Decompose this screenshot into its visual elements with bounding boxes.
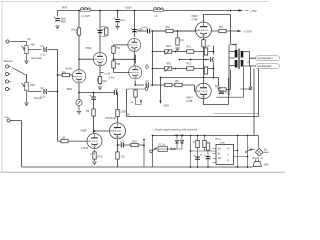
wire feedback loop — [127, 69, 259, 117]
bridge rectifier B1 — [255, 148, 268, 156]
svg-text:R11: R11 — [187, 46, 192, 49]
svg-text:1. Power supply shared by both: 1. Power supply shared by both channels — [153, 128, 198, 131]
resistor R20 — [196, 136, 199, 168]
pot input gain — [22, 45, 29, 53]
svg-text:10K: 10K — [175, 80, 180, 83]
svg-text:GT/B: GT/B — [187, 100, 193, 103]
resistor R18 T4 grid — [165, 83, 182, 86]
capacitor C5 — [44, 47, 47, 52]
resistor R8 — [131, 143, 138, 146]
wire T3 cathode — [203, 38, 205, 40]
svg-text:620: 620 — [103, 80, 108, 83]
svg-text:6H30: 6H30 — [86, 47, 93, 50]
fuse F1 — [158, 147, 177, 152]
svg-text:GT/B: GT/B — [192, 19, 198, 22]
svg-text:0.47u: 0.47u — [109, 76, 116, 79]
resistor R25 plate load T1 — [76, 28, 81, 35]
feedback network — [127, 88, 148, 105]
mains plug P1 — [253, 159, 269, 166]
junction dots driver — [113, 30, 215, 86]
svg-text:B-: B- — [218, 153, 221, 155]
label B voltage — [252, 158, 264, 160]
terminal J2 — [150, 150, 153, 153]
wire TC grid — [133, 51, 135, 66]
resistor R23 — [204, 48, 207, 55]
coupling capacitor C13 — [148, 29, 151, 34]
wire pot out — [28, 49, 41, 51]
wire T6 cathode — [94, 150, 96, 161]
resistor R10 — [112, 61, 115, 68]
trimmer VR2 — [165, 67, 172, 72]
svg-text:AD: AD — [218, 157, 222, 160]
svg-text:50K: 50K — [31, 84, 36, 87]
switch S1 mains — [245, 149, 255, 153]
svg-text:R16: R16 — [215, 85, 220, 88]
resistor R9 — [112, 46, 115, 53]
svg-text:240V: 240V — [62, 7, 68, 10]
svg-text:VR1: VR1 — [166, 45, 171, 48]
svg-text:CD: CD — [27, 38, 31, 41]
resistor R6 T6 cathode — [92, 152, 96, 165]
ground — [24, 103, 28, 106]
wire secondary to outputs — [250, 52, 256, 67]
resistor R15 leak — [175, 30, 179, 50]
svg-text:AC: AC — [264, 149, 268, 152]
svg-text:500R: 500R — [220, 142, 226, 144]
svg-text:0.1u: 0.1u — [120, 19, 125, 22]
svg-text:VR2: VR2 — [166, 63, 171, 66]
svg-text:750: 750 — [116, 63, 121, 66]
resistor R11 — [187, 50, 194, 53]
wire T4 plate loop — [204, 47, 231, 90]
svg-text:4.7V: 4.7V — [90, 153, 95, 156]
wire plate resistor row — [212, 30, 238, 32]
resistor R21 — [203, 136, 206, 152]
ground — [115, 27, 119, 30]
svg-text:1M: 1M — [62, 71, 65, 74]
op TC triode — [129, 66, 142, 79]
resistor R24 — [204, 67, 207, 74]
svg-text:R14: R14 — [132, 141, 137, 144]
wire UL tap vertical — [228, 45, 230, 96]
wire T5 cathode resistor to rail — [117, 145, 119, 167]
svg-text:6N6P: 6N6P — [81, 130, 88, 133]
terminal loudspeaker + — [256, 56, 280, 61]
capacitor C6 — [44, 89, 47, 94]
choke L2 — [154, 8, 164, 12]
svg-text:Selector: Selector — [4, 60, 13, 63]
capacitor C3 on x98 — [96, 27, 108, 37]
frame top line — [1, 1, 269, 3]
wire rail drop x135 — [134, 11, 136, 38]
op T3 triode — [196, 22, 212, 38]
wire bias arrow drop — [161, 78, 204, 102]
arrow +75V — [239, 9, 249, 11]
svg-text:R: R — [193, 141, 195, 144]
junction dots mid — [57, 74, 119, 146]
wire T1 cathode follower out — [79, 83, 118, 99]
frame left line — [1, 2, 3, 173]
wire trim row 1 — [153, 51, 214, 53]
wire coupling cap to T5 — [117, 93, 119, 123]
selector wiper — [12, 68, 27, 83]
wire T1 plate to T2 grid — [79, 11, 93, 70]
svg-text:0.1u: 0.1u — [41, 54, 46, 57]
wire T4 cathode — [204, 78, 229, 105]
svg-text:Input gain: Input gain — [31, 57, 43, 60]
resistor R19 T4 plate — [219, 88, 226, 91]
svg-text:6922: 6922 — [67, 88, 73, 91]
svg-text:C: C — [200, 154, 202, 157]
op T4 triode — [196, 83, 212, 99]
wire TC cathode to T4 row — [135, 80, 196, 91]
ground — [55, 26, 59, 29]
svg-text:Loudspeaker+: Loudspeaker+ — [257, 56, 274, 60]
wire psu top rail — [153, 136, 259, 148]
wire output stage box — [214, 73, 259, 114]
ground — [77, 112, 81, 115]
svg-text:R12: R12 — [187, 63, 192, 66]
svg-text:1M: 1M — [62, 137, 65, 140]
wire T5 cathode row — [118, 140, 145, 145]
wire T3 plate to rail loop — [204, 15, 231, 45]
wire psu right vertical — [253, 69, 255, 136]
arrow +175V — [238, 30, 242, 32]
svg-text:OPT: OPT — [233, 44, 239, 47]
resistor R17 plate — [219, 29, 226, 32]
diode D1 — [175, 136, 178, 150]
arrow bias — [159, 77, 161, 104]
op T2 triode — [93, 52, 106, 65]
connector pair — [171, 148, 176, 150]
wire pot2 out — [27, 75, 42, 103]
svg-text:1K: 1K — [207, 45, 210, 48]
diode D2 — [177, 136, 184, 150]
svg-text:G: G — [227, 160, 229, 162]
resistor R16 T3 cathode — [202, 40, 205, 79]
svg-text:1.5mA: 1.5mA — [81, 147, 89, 150]
wire HT top rail — [58, 10, 243, 12]
selector jacks — [5, 65, 11, 91]
junction dots rail — [78, 10, 231, 60]
svg-text:Loudspeaker-: Loudspeaker- — [257, 64, 273, 68]
op T5 power triode — [110, 123, 126, 139]
svg-text:GND: GND — [4, 117, 9, 119]
svg-text:20K: 20K — [71, 29, 76, 32]
wire psu bottom rail — [152, 136, 154, 168]
switch S2 — [152, 148, 157, 151]
chassis ground — [249, 87, 252, 90]
wire ground bus bottom — [11, 121, 253, 168]
wire secondary down — [250, 66, 252, 87]
capacitor C2 — [114, 18, 120, 27]
wire ground link x143 — [143, 139, 145, 167]
svg-text:1W: 1W — [126, 114, 130, 117]
page background — [0, 0, 285, 177]
capacitor C1 rail left — [54, 17, 60, 22]
regulator module U1 — [213, 142, 248, 164]
resistor R4 T6 plate load — [92, 109, 95, 116]
wire TB cathode to TC plate — [135, 55, 137, 64]
wire TB grid — [114, 45, 135, 73]
svg-text:L1 10H: L1 10H — [82, 15, 90, 18]
svg-text:96.4V: 96.4V — [66, 68, 73, 71]
wire cathode feedback — [217, 67, 251, 97]
wire T3 grid row — [138, 30, 196, 32]
wire x213 vertical — [213, 46, 215, 79]
capacitor C4 on x135 — [131, 28, 137, 33]
svg-text:220K: 220K — [219, 92, 225, 95]
pot volume — [22, 82, 29, 90]
jack input top — [6, 40, 27, 45]
test point TP1 — [146, 64, 149, 69]
resistor R12 — [187, 67, 194, 70]
svg-text:50K: 50K — [31, 44, 36, 47]
note text — [153, 128, 198, 131]
svg-text:0.1u: 0.1u — [41, 96, 46, 99]
resistor R14 grid stopper — [152, 29, 197, 32]
capacitor C10 — [121, 143, 124, 148]
wire T1 grid — [58, 74, 73, 76]
op T1 triode — [72, 70, 85, 83]
resistor R2 T2 cathode — [97, 76, 102, 89]
wire input bus vertical x57 — [48, 50, 61, 142]
wire T2 cathode — [100, 66, 104, 86]
svg-text:+75V: +75V — [250, 9, 257, 13]
svg-text:V-: V- — [227, 154, 229, 156]
capacitor C14 — [217, 88, 228, 94]
capacitor C9 T6 chain — [90, 95, 96, 100]
svg-text:+1.4V: +1.4V — [104, 73, 111, 76]
svg-text:230V: 230V — [264, 165, 270, 167]
svg-text:F1 2A: F1 2A — [159, 144, 166, 147]
svg-text:C13: C13 — [217, 88, 222, 90]
capacitor C8 coupling — [114, 90, 117, 95]
wire mid row — [179, 59, 210, 61]
resistor R1 grid T1 — [62, 73, 69, 76]
wire rail left drop — [57, 11, 59, 17]
svg-text:750: 750 — [219, 26, 224, 29]
wire psu right links — [237, 136, 249, 168]
jack line out — [4, 117, 13, 122]
svg-text:+160V: +160V — [125, 7, 133, 10]
label AC — [264, 149, 268, 152]
current source Q1 — [76, 99, 82, 105]
wire rail drop x98 — [99, 11, 101, 53]
svg-text:47K: 47K — [166, 26, 171, 29]
wire T6 plate load chain — [93, 93, 95, 134]
svg-text:47u: 47u — [101, 29, 106, 32]
svg-text:-150V: -150V — [163, 105, 170, 108]
svg-text:120: 120 — [121, 156, 126, 159]
wire x190 vertical — [191, 136, 217, 168]
svg-text:750: 750 — [116, 47, 121, 50]
capacitor C11 mid — [211, 57, 214, 62]
wire T6 plate to T5 grid — [94, 130, 109, 132]
capacitor C17 tap — [146, 83, 149, 88]
svg-text:PS-1: PS-1 — [216, 138, 222, 141]
svg-text:R12: R12 — [98, 156, 103, 159]
svg-text:1M: 1M — [180, 39, 183, 42]
junction dots psu — [152, 135, 249, 168]
op T6 triode — [87, 133, 102, 148]
wire current source to gnd — [78, 106, 80, 111]
transformer OPT — [229, 45, 250, 70]
wire driver row mid — [152, 31, 154, 85]
svg-text:+B 12V ~C: +B 12V ~C — [252, 158, 264, 160]
resistor R22 — [204, 143, 210, 167]
op TB triode — [128, 38, 141, 51]
resistor R3 — [116, 109, 119, 116]
svg-text:+175V: +175V — [244, 30, 252, 34]
wire rail drop x117 — [117, 11, 119, 19]
terminal loudspeaker - — [256, 64, 280, 69]
frame bottom line — [1, 171, 286, 173]
wire pot gnd — [26, 54, 28, 61]
resistor R5 T6 grid — [61, 139, 68, 142]
wire trim row 2 — [153, 68, 214, 70]
svg-text:400V: 400V — [61, 21, 67, 24]
svg-text:100u: 100u — [137, 29, 143, 32]
choke L1 — [81, 8, 91, 12]
ground — [24, 61, 28, 64]
capacitor C15 — [194, 155, 200, 160]
trimmer VR1 — [165, 50, 172, 55]
junction node K — [78, 92, 94, 94]
resistor R7 T5 cathode — [116, 152, 119, 159]
svg-text:6C33C-B: 6C33C-B — [106, 117, 117, 120]
wire T6 grid — [68, 140, 87, 142]
